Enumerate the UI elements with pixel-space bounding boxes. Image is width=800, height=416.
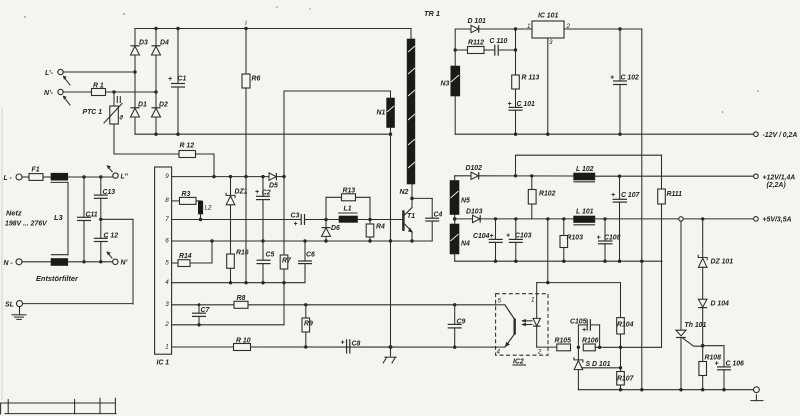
svg-text:N -: N - [4,260,14,267]
svg-text:C 106: C 106 [726,360,745,367]
svg-text:R103: R103 [567,235,584,242]
svg-text:IC2: IC2 [513,359,524,366]
svg-text:D103: D103 [466,209,483,216]
svg-text:+: + [168,76,172,83]
svg-text:TR 1: TR 1 [424,9,440,18]
svg-text:T1: T1 [407,213,415,220]
svg-text:2: 2 [537,348,542,355]
svg-text:R 10: R 10 [236,337,251,344]
svg-text:Netz: Netz [6,209,22,218]
svg-text:R112: R112 [468,40,484,47]
svg-text:1: 1 [165,343,169,350]
svg-text:N3: N3 [441,81,450,88]
svg-text:4: 4 [497,349,501,356]
svg-text:R16: R16 [236,250,249,257]
svg-text:C 107: C 107 [621,192,641,199]
svg-text:C 110: C 110 [490,38,508,45]
svg-text:C 102: C 102 [621,75,640,82]
svg-text:L’’: L’’ [121,174,128,181]
svg-text:R14: R14 [179,253,192,260]
svg-text:C2: C2 [262,190,271,197]
svg-text:8: 8 [165,197,169,204]
svg-text:N’-: N’- [44,90,54,97]
svg-text:N1: N1 [377,109,386,116]
svg-text:R7: R7 [282,258,292,265]
svg-text:+: + [490,233,494,240]
svg-text:R8: R8 [237,295,246,302]
svg-text:N5: N5 [461,198,470,205]
svg-text:R6: R6 [252,76,261,83]
svg-text:C3: C3 [291,213,300,220]
svg-text:5: 5 [165,259,169,266]
svg-text:(2,2A): (2,2A) [767,182,787,189]
svg-text:Entstörfilter: Entstörfilter [36,274,79,283]
svg-text:D1: D1 [138,102,147,109]
svg-text:R9: R9 [304,320,313,327]
svg-text:C7: C7 [201,307,211,314]
svg-text:R13: R13 [343,187,356,194]
svg-text:C13: C13 [103,189,116,196]
svg-text:4: 4 [165,279,169,286]
svg-text:R104: R104 [617,322,634,329]
svg-text:6: 6 [165,237,169,244]
svg-text:D 101: D 101 [468,18,487,25]
svg-text:R 113: R 113 [522,75,540,82]
svg-text:L -: L - [4,175,13,182]
svg-text:198V ... 276V: 198V ... 276V [5,221,48,228]
svg-text:+: + [506,233,510,240]
svg-text:N2: N2 [400,189,409,196]
svg-text:C9: C9 [457,319,466,326]
svg-text:D 104: D 104 [711,301,730,308]
svg-text:C11: C11 [86,211,98,218]
svg-text:C104: C104 [473,233,490,240]
svg-text:R111: R111 [667,191,683,198]
svg-text:+12V/1,4A: +12V/1,4A [763,174,796,181]
svg-text:1: 1 [527,23,531,30]
svg-text:L 102: L 102 [576,166,594,173]
svg-text:PTC 1: PTC 1 [83,109,103,116]
svg-text:C6: C6 [306,252,315,259]
svg-text:+: + [341,340,345,347]
svg-text:S D 101: S D 101 [586,361,611,368]
svg-text:C 12: C 12 [104,232,119,239]
svg-text:D4: D4 [160,40,169,47]
svg-text:D102: D102 [466,165,483,172]
svg-text:7: 7 [165,216,169,223]
svg-text:L2: L2 [205,205,213,212]
svg-text:C1: C1 [178,76,187,83]
svg-text:2: 2 [164,321,169,328]
svg-text:N’: N’ [121,260,128,267]
svg-text:F1: F1 [32,167,40,174]
svg-text:+: + [610,75,614,82]
svg-text:C4: C4 [434,212,443,219]
svg-text:R 12: R 12 [180,142,195,149]
svg-text:+5V/3,5A: +5V/3,5A [763,217,792,224]
svg-text:+: + [255,189,259,196]
svg-text:3: 3 [165,301,169,308]
svg-text:C8: C8 [352,341,361,348]
svg-text:R 1: R 1 [93,83,104,90]
svg-text:R4: R4 [376,224,385,231]
svg-text:N4: N4 [461,241,470,248]
svg-text:C103: C103 [515,232,532,239]
svg-text:L1: L1 [344,206,352,213]
svg-text:3: 3 [549,39,553,46]
svg-text:L 101: L 101 [576,208,594,215]
svg-text:D5: D5 [269,182,278,189]
svg-text:C5: C5 [266,252,275,259]
svg-text:R105: R105 [555,338,572,345]
svg-text:1: 1 [531,297,535,304]
svg-text:C 101: C 101 [517,101,536,108]
svg-text:+: + [611,192,615,199]
svg-text:R106: R106 [582,337,599,344]
svg-text:SL: SL [5,302,14,309]
svg-text:IC 1: IC 1 [157,360,170,367]
svg-text:-12V / 0,2A: -12V / 0,2A [763,132,798,139]
svg-text:DZ 101: DZ 101 [711,259,734,266]
svg-text:IC 101: IC 101 [538,13,558,20]
svg-text:C108: C108 [604,234,621,241]
svg-text:L3: L3 [54,213,64,222]
svg-text:L’-: L’- [45,70,54,77]
svg-text:D3: D3 [139,40,148,47]
svg-text:ϑ: ϑ [119,116,124,122]
svg-text:R3: R3 [182,191,191,198]
svg-text:5: 5 [498,298,502,305]
svg-text:R108: R108 [705,355,722,362]
svg-text:+: + [294,221,298,228]
svg-text:+: + [508,101,512,108]
svg-text:D6: D6 [331,225,340,232]
svg-text:D2: D2 [159,102,168,109]
svg-text:R107: R107 [617,376,635,383]
svg-text:+: + [582,327,586,334]
svg-text:+: + [597,234,601,241]
svg-text:9: 9 [165,173,169,180]
svg-text:+: + [715,360,719,367]
svg-text:Th 101: Th 101 [685,322,707,329]
svg-text:C105: C105 [570,319,587,326]
svg-text:R102: R102 [539,191,556,198]
